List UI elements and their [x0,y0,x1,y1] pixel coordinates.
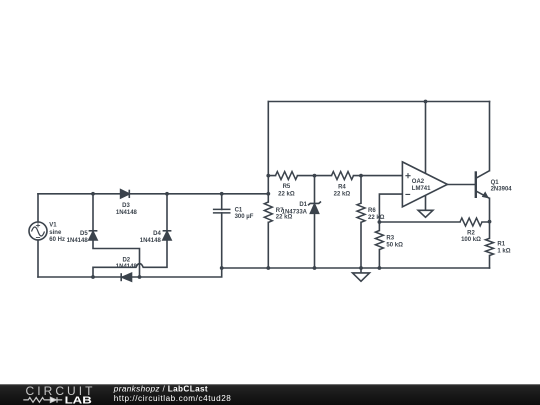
svg-text:C1: C1 [235,207,243,213]
footer bar [0,384,540,405]
wire Q1 emitter down to R1 and rail [489,198,491,268]
label V1 [49,223,65,243]
resistor R6 [357,203,365,222]
svg-text:1N4148: 1N4148 [140,238,162,244]
wire Q1 collector to top rail [489,102,491,171]
wire top-left rail y=194 [38,193,268,195]
op-amp OA2 [402,162,447,207]
footer logo CIRCUIT [26,384,94,398]
svg-text:http://circuitlab.com/c4tud28: http://circuitlab.com/c4tud28 [114,394,232,403]
wire top feedback rail [268,101,489,103]
svg-text:V1: V1 [49,223,57,229]
svg-text:50 kΩ: 50 kΩ [386,243,403,249]
label R3 [386,236,403,249]
diode D3 [121,190,130,198]
svg-text:22 kΩ: 22 kΩ [278,191,295,197]
svg-text:prankshopz / LabCLast: prankshopz / LabCLast [113,385,208,394]
wire R6 leads [360,176,362,268]
junction R5 left [266,174,270,178]
svg-text:22 kΩ: 22 kΩ [334,191,351,197]
label D5 [67,231,89,244]
svg-text:LM741: LM741 [412,186,431,192]
label R4 [334,184,351,197]
diode D2 [121,273,131,281]
svg-text:OA2: OA2 [412,179,425,185]
svg-text:R6: R6 [368,208,376,214]
resistor R3 [375,231,383,250]
zener diode D1 [308,202,321,214]
wire op-amp plus input rail y=175.6 [268,175,402,177]
ground op-amp [418,210,433,217]
junction D1 bottom [313,266,317,270]
wire op-amp output [447,184,475,186]
svg-text:1 kΩ: 1 kΩ [497,249,510,255]
svg-text:D3: D3 [122,203,130,209]
junction R3 top / R2 left [378,220,382,224]
resistor R5 [276,172,298,180]
svg-text:R1: R1 [497,242,505,248]
footer credit line [113,385,208,394]
wire op-amp minus input [379,194,402,222]
voltage source V1 [29,222,47,240]
svg-text:D5: D5 [80,231,88,237]
footer logo waveform [23,397,62,402]
wire C1 vertical [221,194,223,268]
wire V1 vertical [37,194,39,277]
svg-text:1N4148: 1N4148 [67,238,89,244]
junction R5-R4 / D1 top [313,174,317,178]
svg-text:D1: D1 [299,202,307,208]
junction op-amp V+ on top rail [424,100,428,104]
svg-text:300 µF: 300 µF [235,214,254,220]
junction R4 right / R6 top [359,174,363,178]
svg-text:R3: R3 [386,236,394,242]
junction D4 return on bottom-left rail [91,275,95,279]
label C1 [235,207,254,220]
svg-text:sine: sine [49,230,62,236]
svg-text:1N4148: 1N4148 [116,264,138,270]
wire bottom-middle rail y=268 [222,267,490,269]
resistor R7 [264,202,272,222]
svg-text:60 Hz: 60 Hz [49,237,65,243]
label R2 [461,231,481,243]
svg-text:1N4148: 1N4148 [116,210,138,216]
label Q1 [491,180,513,193]
junction R6 bottom / ground [359,266,363,270]
label OA2 [412,179,431,192]
label R1 [497,242,510,255]
label D4 [140,231,162,244]
svg-text:D4: D4 [153,231,161,237]
junction C1 bottom [220,266,224,270]
label D1 [282,202,308,216]
junction R2 right / Q1 emitter / R1 top [488,220,492,224]
wire D4 branch with hop over x=139.5 [93,194,167,277]
label R7 [276,208,293,221]
capacitor C1 [213,209,231,213]
svg-text:Q1: Q1 [491,180,500,186]
resistor R2 [460,218,482,226]
ground main [353,268,370,281]
footer url line [114,394,232,403]
wire left main vertical x=268 [267,102,269,269]
resistor R1 [486,238,494,255]
junction C1 top rail [220,192,224,196]
svg-text:22 kΩ: 22 kΩ [368,215,385,221]
svg-text:D2: D2 [122,258,130,264]
wire D1 leads [314,176,316,268]
junction D5 top rail [91,192,95,196]
diode D5 [89,231,98,240]
label D3 [116,203,138,216]
wire D5 branch [93,194,140,277]
resistor R4 [332,172,354,180]
wire R2 row y=222 [379,221,489,223]
junction R7 bottom [266,266,270,270]
wire R3 leads [378,222,380,268]
diode D4 [163,231,172,240]
label R5 [278,184,295,198]
label D2 [116,258,138,271]
svg-text:R5: R5 [283,184,291,190]
svg-text:100 kΩ: 100 kΩ [461,237,481,243]
junction D4 top rail [165,192,169,196]
svg-text:R2: R2 [467,231,475,237]
wire op-amp power stems [425,102,427,211]
junction R3 bottom [378,266,382,270]
label R6 [368,208,385,221]
junction D5 return on bottom-left rail [138,275,142,279]
junction left rail / R7 vertical [266,192,270,196]
svg-text:1N4733A: 1N4733A [282,210,308,216]
svg-text:R4: R4 [338,184,346,190]
svg-text:2N3904: 2N3904 [491,187,513,193]
footer logo LAB [65,395,92,405]
wire bottom-left rail y=277 [38,268,222,277]
svg-text:LAB: LAB [65,395,92,405]
transistor Q1 [476,171,490,199]
